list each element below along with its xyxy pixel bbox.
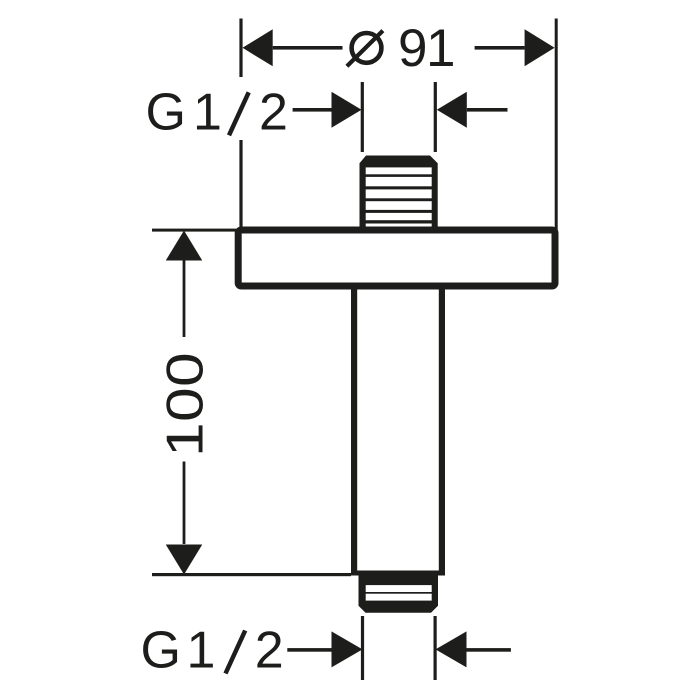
svg-text:1: 1	[193, 83, 222, 141]
svg-text:100: 100	[156, 352, 214, 457]
svg-text:2: 2	[255, 622, 284, 680]
svg-text:91: 91	[398, 19, 454, 78]
svg-text:G: G	[141, 622, 181, 680]
svg-text:2: 2	[259, 83, 288, 141]
svg-text:1: 1	[187, 622, 216, 680]
svg-text:G: G	[146, 83, 186, 141]
